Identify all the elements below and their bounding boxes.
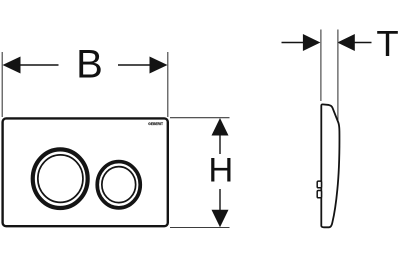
small flush button outer ring (97, 162, 140, 208)
dimension T left arrowhead (303, 34, 321, 51)
dimension B line left segment (20, 64, 59, 66)
dimension B left arrowhead (3, 57, 21, 74)
dimension B extension line left (1, 52, 3, 117)
dimension H line bottom segment (219, 189, 221, 211)
dimension H top arrowhead (212, 118, 229, 136)
side view button bump upper (317, 181, 321, 188)
side view button bump lower (317, 191, 321, 198)
dimension H extension line top (170, 117, 230, 119)
small flush button inner circle (102, 167, 136, 203)
side view plate profile (321, 104, 339, 227)
svg-text:B: B (76, 43, 103, 87)
dimension B extension line right (167, 52, 169, 117)
dimension B right arrowhead (150, 57, 168, 74)
dimension T line right segment (354, 42, 371, 44)
dimension T extension line right (337, 30, 339, 124)
svg-text:GEBERIT: GEBERIT (148, 122, 163, 126)
dimension H bottom arrowhead (212, 210, 229, 228)
dimension T line left segment (282, 42, 304, 44)
large flush button inner circle (38, 155, 83, 203)
svg-text:H: H (208, 152, 233, 190)
large flush button outer ring (33, 149, 88, 208)
dimension H extension line bottom (170, 227, 230, 229)
dimension H line top segment (219, 135, 221, 155)
flush plate front view outline (3, 118, 168, 226)
dimension B line right segment (118, 64, 151, 66)
dimension T right arrowhead (337, 34, 355, 51)
dimension T extension line left (320, 30, 322, 102)
svg-text:T: T (376, 23, 398, 64)
